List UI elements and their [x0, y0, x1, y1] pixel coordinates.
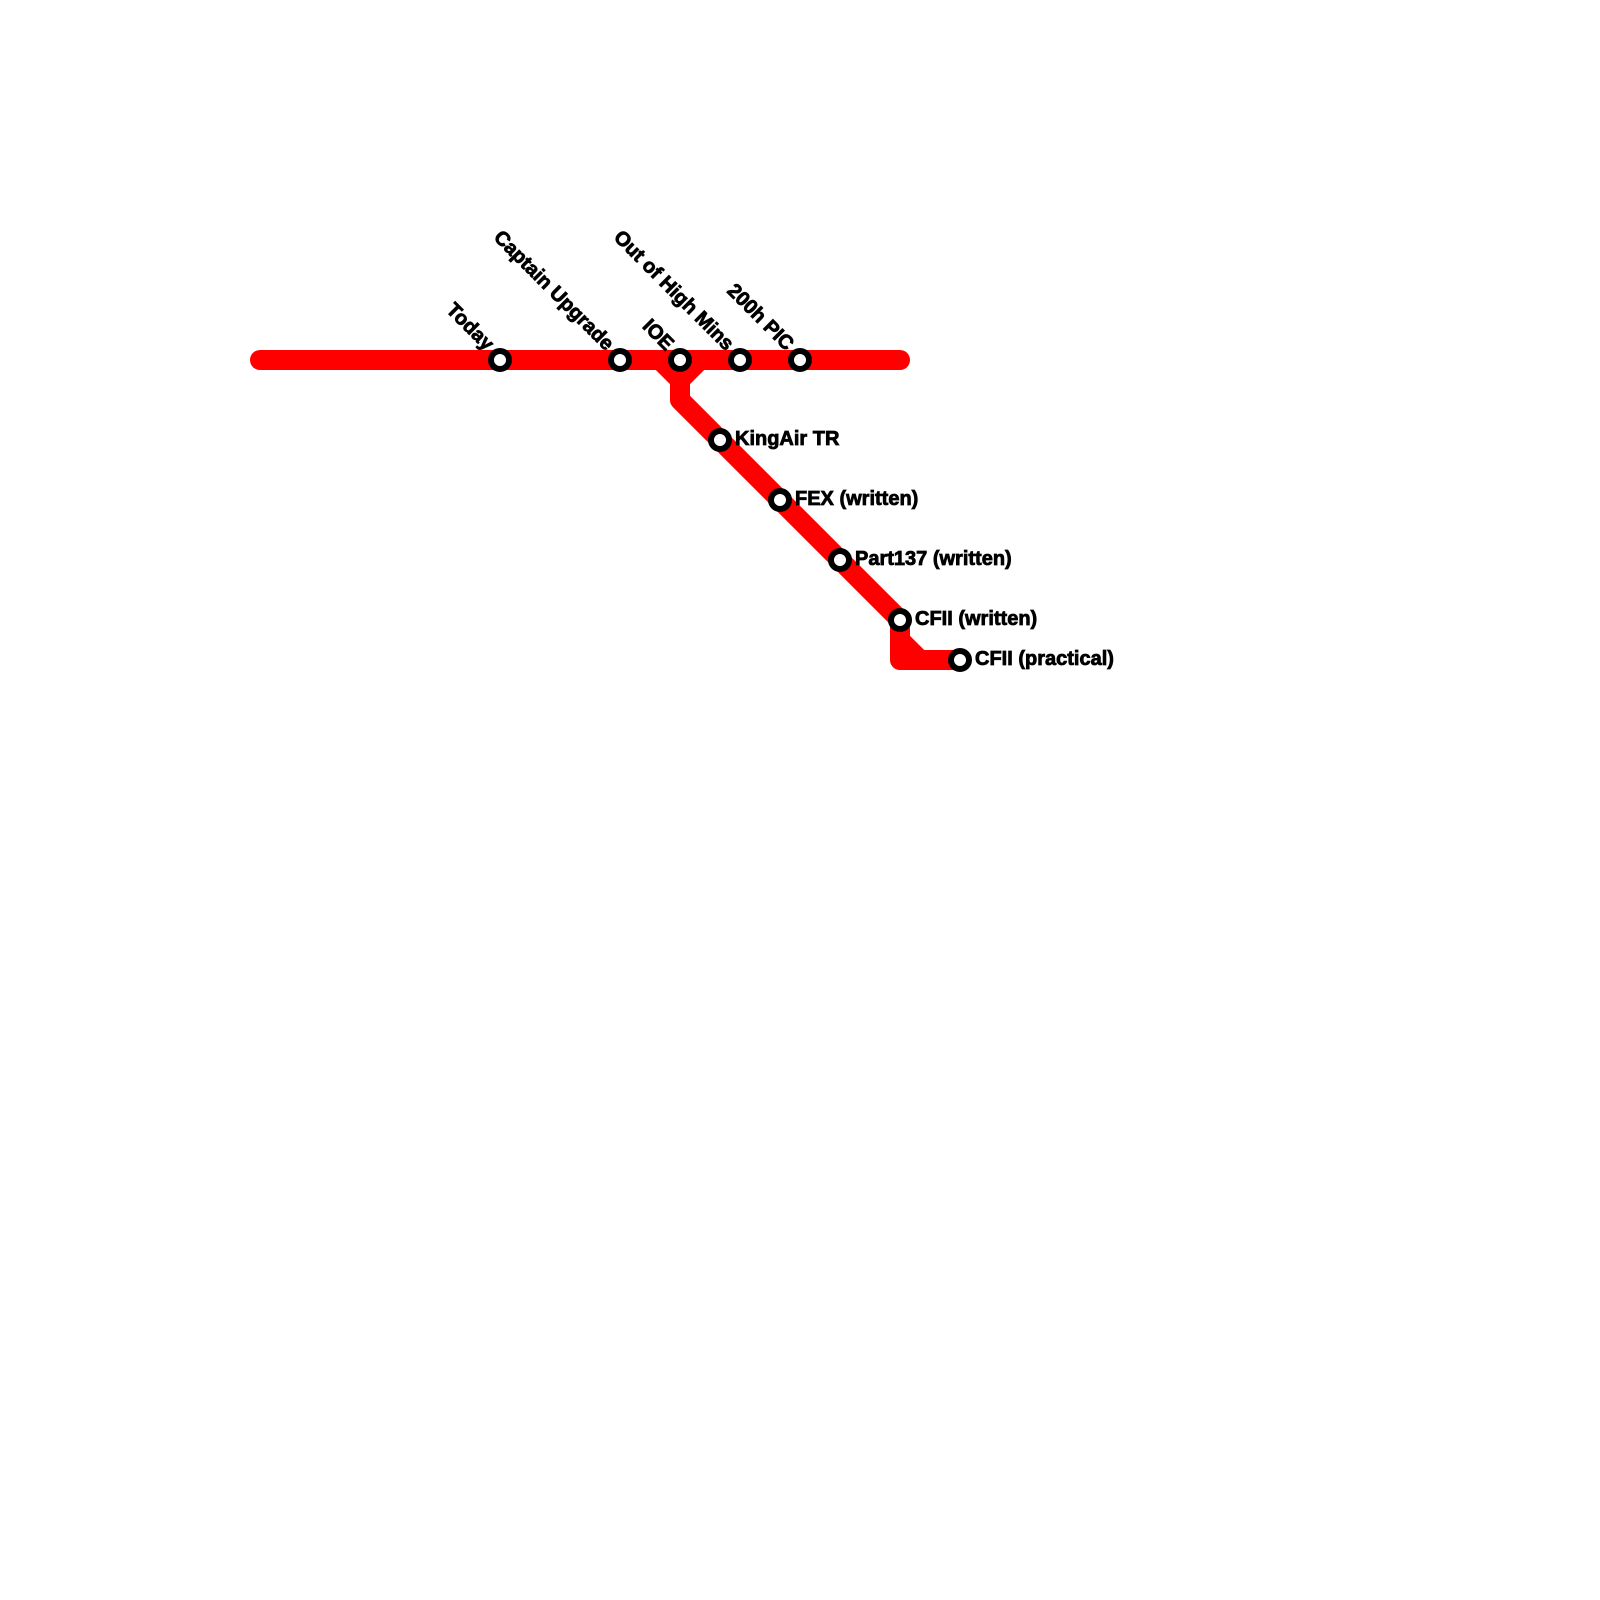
- svg-text:Part137 (written): Part137 (written): [855, 548, 1012, 570]
- svg-text:CFII (practical): CFII (practical): [975, 648, 1114, 670]
- svg-text:CFII (written): CFII (written): [915, 608, 1037, 630]
- svg-text:FEX (written): FEX (written): [795, 488, 918, 510]
- svg-text:KingAir TR: KingAir TR: [735, 428, 840, 450]
